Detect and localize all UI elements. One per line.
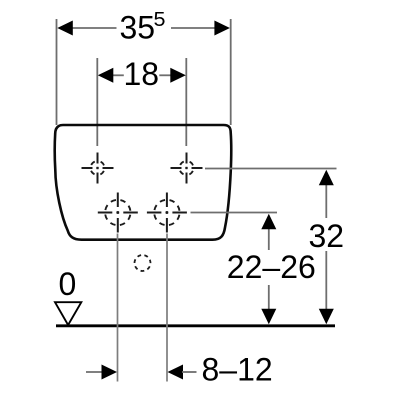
arrowhead right of dimension 18 — [170, 68, 186, 83]
extension line left of dimension 18 (upper-left hole centerline) — [96, 58, 98, 146]
svg-text:5: 5 — [154, 9, 166, 31]
dimension 8-12 right tail — [182, 371, 197, 373]
small dashed circle (drain) — [135, 255, 151, 271]
arrowhead left-pointing of dimension 8-12 — [168, 365, 184, 380]
upper-left hole dashed circle — [91, 161, 105, 175]
dimension line 18 right segment — [159, 74, 172, 76]
svg-text:32: 32 — [309, 218, 345, 254]
dimension line 18 left segment — [112, 74, 124, 76]
arrowhead left of dimension 18 — [98, 68, 114, 83]
reference line from lower holes to dimension 22-26 — [191, 212, 278, 214]
extension line left of dimension 35.5 — [56, 19, 58, 125]
upper-left hole centerline cross — [82, 153, 114, 184]
floor line — [56, 324, 335, 327]
arrowhead up of dimension 22-26 — [261, 214, 276, 230]
reference line from upper holes to dimension 32 — [205, 168, 337, 170]
dimension line 35.5 left segment — [70, 27, 117, 29]
extension line right of dimension 18 (upper-right hole centerline) — [185, 58, 187, 146]
arrowhead up of dimension 32 — [319, 170, 334, 186]
arrowhead right-pointing of dimension 8-12 — [102, 365, 118, 380]
svg-text:18: 18 — [124, 56, 160, 92]
label 35 superscript 5 — [120, 9, 166, 45]
arrowhead down of dimension 32 — [319, 309, 334, 325]
lower-left hole centerline cross — [98, 193, 138, 233]
arrowhead down of dimension 22-26 — [261, 309, 276, 325]
svg-text:35: 35 — [120, 10, 156, 46]
svg-text:0: 0 — [59, 266, 77, 302]
dimension line 22-26 lower segment — [268, 285, 270, 310]
dimension 8-12 left tail — [86, 371, 103, 373]
bidet body outline — [55, 125, 232, 240]
dimension line 32 upper segment — [325, 184, 327, 218]
upper-right hole dashed circle — [180, 161, 194, 175]
extension line right of dimension 35.5 — [230, 19, 232, 125]
lower-left hole dashed circle — [105, 200, 130, 225]
lower-right hole centerline cross — [147, 193, 187, 233]
svg-text:22–26: 22–26 — [227, 249, 316, 285]
dimension line 35.5 right segment — [171, 27, 217, 29]
svg-text:8–12: 8–12 — [202, 351, 273, 387]
extension line below lower-right hole — [166, 234, 168, 382]
dimension line 32 lower segment — [325, 251, 327, 310]
extension line below lower-left hole — [117, 234, 119, 382]
arrowhead right of dimension 35.5 — [214, 21, 230, 36]
lower-right hole dashed circle — [154, 200, 179, 225]
dimension line 22-26 upper segment — [268, 228, 270, 250]
arrowhead left of dimension 35.5 — [57, 21, 73, 36]
datum triangle — [55, 302, 81, 325]
upper-right hole centerline cross — [171, 153, 203, 184]
